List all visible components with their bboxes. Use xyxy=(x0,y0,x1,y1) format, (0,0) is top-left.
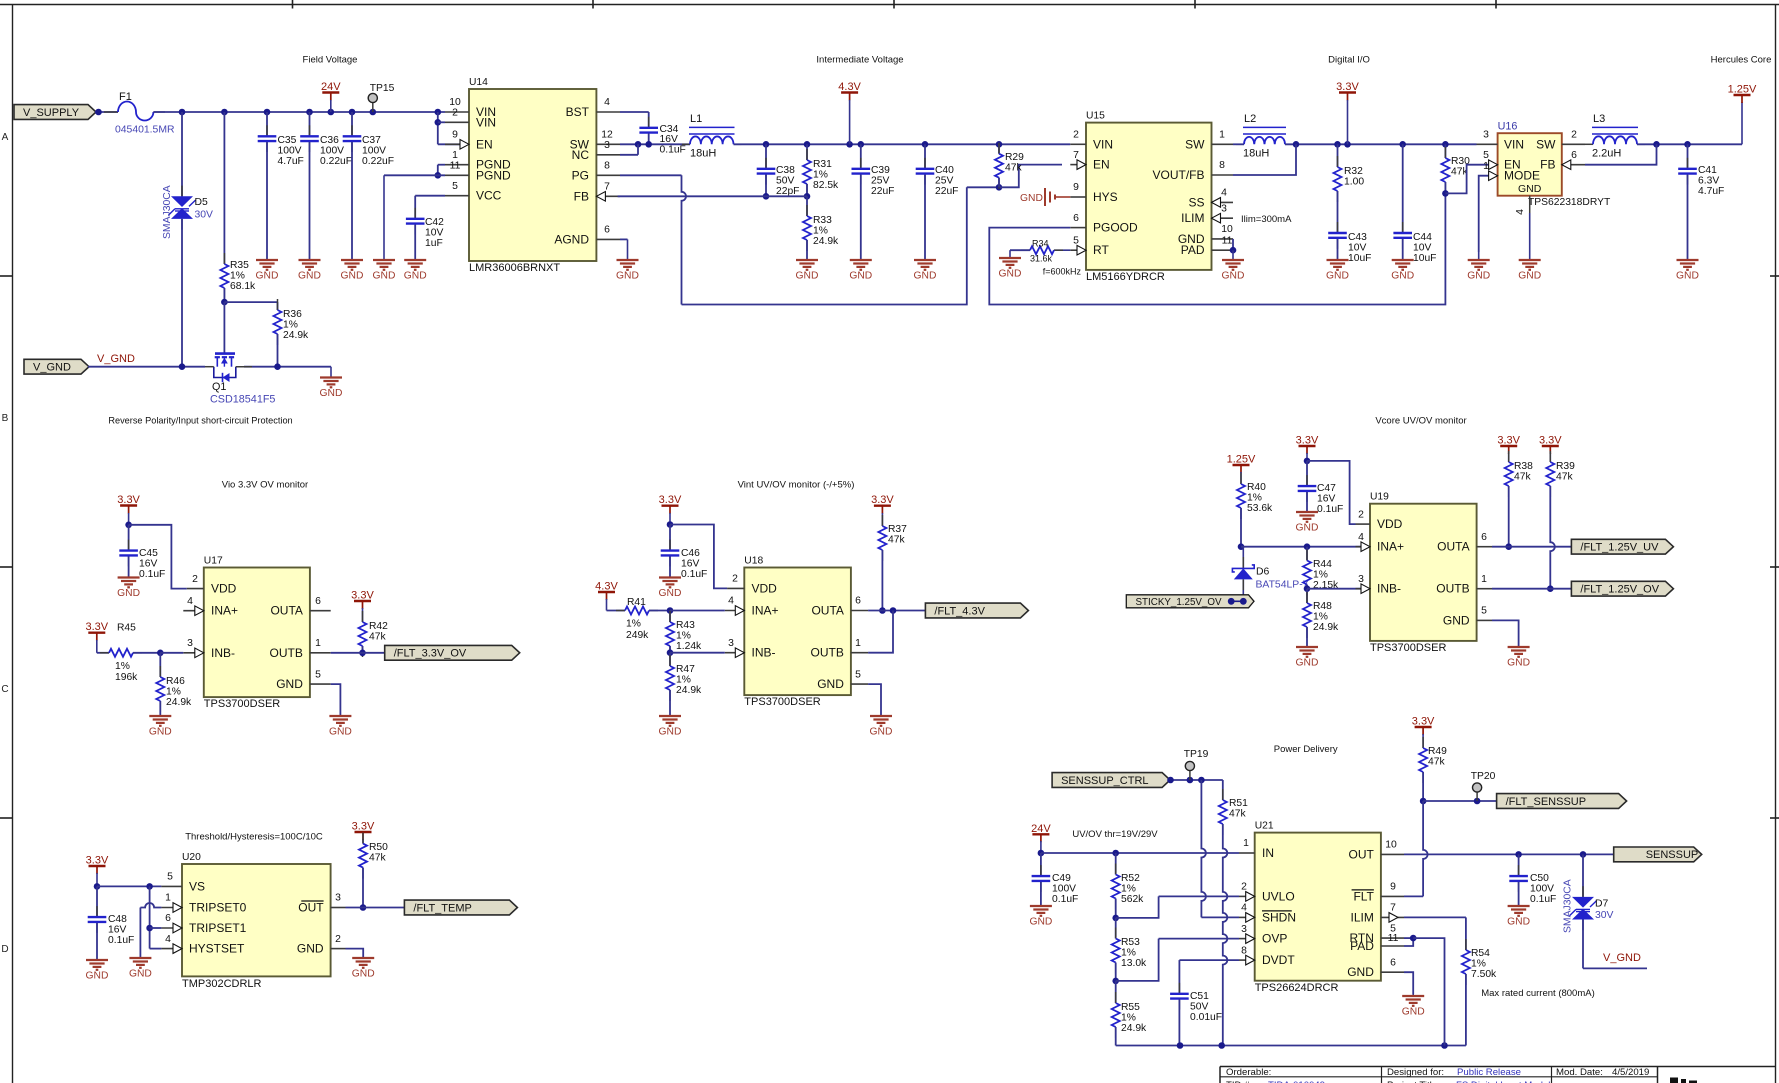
svg-text:SENSSUP_CTRL: SENSSUP_CTRL xyxy=(1061,775,1148,787)
ground under C35 xyxy=(256,259,278,261)
svg-text:3: 3 xyxy=(187,638,193,649)
svg-text:5: 5 xyxy=(167,872,173,883)
svg-text:CSD18541F5: CSD18541F5 xyxy=(210,394,275,406)
ground under C44 xyxy=(1392,259,1414,261)
resistor R35 xyxy=(223,112,225,264)
svg-text:3: 3 xyxy=(1241,924,1247,935)
svg-text:INB-: INB- xyxy=(1377,582,1401,596)
svg-text:C36: C36 xyxy=(320,135,339,146)
wire 3.3V to U18 VDD xyxy=(670,525,727,589)
U14 pin 11 PGND xyxy=(445,174,469,176)
svg-text:1.25V: 1.25V xyxy=(1227,454,1256,466)
U19 pin 3 INB- xyxy=(1356,588,1371,590)
svg-text:3: 3 xyxy=(1483,130,1489,141)
svg-text:GND: GND xyxy=(320,388,343,399)
svg-text:1: 1 xyxy=(855,638,861,649)
resistor R50 xyxy=(362,833,364,844)
svg-text:MODE: MODE xyxy=(1504,169,1540,183)
svg-text:R47: R47 xyxy=(676,664,695,675)
U16 pin 3 VIN xyxy=(1477,143,1498,145)
svg-text:C51: C51 xyxy=(1190,991,1209,1002)
U16 pin 6 FB xyxy=(1562,164,1585,166)
svg-text:1: 1 xyxy=(452,150,458,161)
svg-text:6: 6 xyxy=(1481,532,1487,543)
svg-text:0.1uF: 0.1uF xyxy=(660,145,686,156)
svg-text:VDD: VDD xyxy=(211,582,237,596)
svg-text:TP19: TP19 xyxy=(1184,749,1209,760)
U21 pin 10 OUT xyxy=(1381,853,1404,855)
resistor R55 xyxy=(1115,981,1117,1003)
svg-text:AGND: AGND xyxy=(554,232,589,246)
svg-text:3: 3 xyxy=(335,893,341,904)
svg-text:C42: C42 xyxy=(425,217,444,228)
U15 pin 3 ILIM xyxy=(1212,217,1234,219)
svg-text:1%: 1% xyxy=(813,169,828,180)
svg-text:47k: 47k xyxy=(369,631,386,642)
resistor R40 xyxy=(1240,473,1242,484)
U17 pin 1 OUTB xyxy=(310,652,331,654)
svg-text:R43: R43 xyxy=(676,620,695,631)
svg-text:GND: GND xyxy=(117,588,140,599)
ground under C37 xyxy=(341,259,363,261)
svg-text:R52: R52 xyxy=(1121,873,1140,884)
svg-text:12: 12 xyxy=(601,130,613,141)
svg-text:TRIPSET0: TRIPSET0 xyxy=(189,901,247,915)
ground under C50 xyxy=(1508,905,1530,907)
svg-text:GND: GND xyxy=(341,271,364,282)
svg-text:4: 4 xyxy=(1514,209,1526,215)
U18 pin 3 INB- xyxy=(725,652,745,654)
svg-text:C40: C40 xyxy=(935,165,954,176)
ground under C49 xyxy=(1030,905,1052,907)
transistor Q1 CSD18541F5 xyxy=(223,302,225,353)
svg-text:045401.5MR: 045401.5MR xyxy=(115,125,175,136)
svg-text:/FLT_TEMP: /FLT_TEMP xyxy=(413,902,471,914)
svg-text:GND: GND xyxy=(298,271,321,282)
wire Q1 source to ground xyxy=(244,366,331,368)
wire SENSSUP_CTRL to R51 xyxy=(1169,779,1223,781)
svg-text:100V: 100V xyxy=(1530,883,1554,894)
svg-text:R40: R40 xyxy=(1247,482,1266,493)
U15 pin 5 RT xyxy=(1070,249,1086,251)
svg-text:3.3V: 3.3V xyxy=(352,821,375,833)
wire OUT to flag xyxy=(346,907,405,909)
svg-text:1%: 1% xyxy=(1121,947,1136,958)
svg-text:1%: 1% xyxy=(1313,611,1328,622)
test point TP19 xyxy=(1189,766,1191,780)
svg-text:1: 1 xyxy=(315,638,321,649)
wire PGOOD down xyxy=(989,193,1445,304)
svg-text:L3: L3 xyxy=(1593,113,1605,125)
svg-text:GND: GND xyxy=(1020,193,1043,204)
svg-text:VOUT/FB: VOUT/FB xyxy=(1152,168,1204,182)
svg-text:BAT54LP-7: BAT54LP-7 xyxy=(1256,580,1309,591)
svg-text:/FLT_SENSSUP: /FLT_SENSSUP xyxy=(1506,796,1587,808)
svg-text:C48: C48 xyxy=(108,914,127,925)
svg-text:INA+: INA+ xyxy=(211,604,238,618)
svg-text:Vcore UV/OV monitor: Vcore UV/OV monitor xyxy=(1375,416,1466,427)
svg-text:GND: GND xyxy=(276,677,303,691)
svg-text:Reverse Polarity/Input short-c: Reverse Polarity/Input short-circuit Pro… xyxy=(108,416,292,426)
svg-text:22uF: 22uF xyxy=(871,186,894,197)
svg-text:Hercules Core: Hercules Core xyxy=(1711,55,1772,66)
svg-text:100V: 100V xyxy=(1052,883,1076,894)
svg-text:47k: 47k xyxy=(1556,471,1573,482)
svg-text:5: 5 xyxy=(1073,235,1079,246)
svg-text:4: 4 xyxy=(165,934,171,945)
svg-text:1%: 1% xyxy=(166,686,181,697)
wire BST to C34 xyxy=(620,111,649,113)
svg-text:24V: 24V xyxy=(1031,823,1051,835)
svg-text:25V: 25V xyxy=(935,175,953,186)
wire SW node xyxy=(620,143,690,145)
svg-text:3.3V: 3.3V xyxy=(351,590,374,602)
wire RTN PAD join xyxy=(1404,937,1413,939)
svg-text:INA+: INA+ xyxy=(1377,540,1404,554)
resistor R37 xyxy=(881,515,883,526)
U18 pin 2 VDD xyxy=(727,587,744,589)
svg-text:FB: FB xyxy=(574,189,589,203)
svg-text:Field Voltage: Field Voltage xyxy=(303,55,358,66)
svg-text:2: 2 xyxy=(452,108,458,119)
svg-text:0.1uF: 0.1uF xyxy=(139,569,165,580)
svg-text:SS: SS xyxy=(1188,195,1204,209)
U15 pin 6 PGOOD xyxy=(1070,227,1086,229)
wire FB tap U16 xyxy=(1585,144,1657,164)
U20 pin 6 TRIPSET1 xyxy=(161,927,182,929)
ground under R48 xyxy=(1296,646,1318,648)
svg-text:C: C xyxy=(1,684,8,695)
svg-text:GND: GND xyxy=(999,269,1022,280)
TI logo fragment xyxy=(1670,1078,1678,1083)
capacitor C37 xyxy=(351,112,353,135)
svg-text:R48: R48 xyxy=(1313,601,1332,612)
svg-text:GND: GND xyxy=(1518,183,1542,195)
ground under R46 xyxy=(149,715,171,717)
svg-text:1%: 1% xyxy=(1471,958,1486,969)
svg-text:2: 2 xyxy=(335,934,341,945)
wire VIN pin2 branch xyxy=(437,112,439,144)
svg-text:196k: 196k xyxy=(115,672,138,683)
svg-text:4: 4 xyxy=(1221,188,1227,199)
svg-text:VIN: VIN xyxy=(1504,137,1524,151)
svg-text:GND: GND xyxy=(1443,613,1470,627)
resistor R34 at RT xyxy=(1054,249,1070,251)
resistor R36 xyxy=(224,301,277,303)
wire to INA+ xyxy=(670,610,725,612)
net flag /FLT_1.25V_UV xyxy=(1571,539,1673,554)
U16 pin 2 SW xyxy=(1562,143,1585,145)
wire VS row xyxy=(97,885,161,887)
wire 4.3V intermediate bus xyxy=(734,143,1071,145)
wire PGND pins to ground xyxy=(438,164,445,166)
svg-text:U19: U19 xyxy=(1370,492,1389,503)
svg-text:GND: GND xyxy=(329,727,352,738)
svg-text:U17: U17 xyxy=(204,556,223,567)
svg-text:GND: GND xyxy=(849,271,872,282)
svg-text:Q1: Q1 xyxy=(212,381,226,393)
svg-text:50V: 50V xyxy=(776,175,794,186)
svg-text:47k: 47k xyxy=(888,534,905,545)
svg-text:R46: R46 xyxy=(166,676,185,687)
svg-text:C49: C49 xyxy=(1052,873,1071,884)
capacitor C48 xyxy=(96,886,98,916)
ground for U17 GND pin xyxy=(331,684,341,716)
ground under R47 xyxy=(659,715,681,717)
ground under C42 xyxy=(404,259,426,261)
svg-text:GND: GND xyxy=(129,969,152,980)
svg-text:4: 4 xyxy=(1241,903,1247,914)
svg-text:100V: 100V xyxy=(278,145,302,156)
capacitor C47 xyxy=(1306,461,1308,485)
svg-text:HYSTSET: HYSTSET xyxy=(189,942,245,956)
svg-text:24V: 24V xyxy=(321,81,341,93)
svg-text:R41: R41 xyxy=(627,597,646,608)
U18 pin 1 OUTB xyxy=(851,652,868,654)
wire to INB- xyxy=(670,652,725,654)
svg-text:1%: 1% xyxy=(1121,1012,1136,1023)
wire SHDN row xyxy=(1201,916,1239,918)
svg-text:47k: 47k xyxy=(369,852,386,863)
U14 pin 1 PGND xyxy=(445,164,469,166)
svg-text:7: 7 xyxy=(1073,150,1079,161)
wire 3.3V to U19 VDD xyxy=(1307,461,1356,524)
svg-text:TP20: TP20 xyxy=(1471,771,1496,782)
capacitor C46 xyxy=(669,525,671,550)
ground for PGND xyxy=(383,175,385,260)
svg-text:GND: GND xyxy=(914,271,937,282)
svg-text:GND: GND xyxy=(86,971,109,982)
svg-text:Vio 3.3V OV monitor: Vio 3.3V OV monitor xyxy=(222,480,308,491)
svg-text:C44: C44 xyxy=(1413,232,1432,243)
svg-text:10V: 10V xyxy=(1413,242,1431,253)
op-amp U20 TMP302CDRLR temperature switch xyxy=(182,864,331,976)
svg-text:GND: GND xyxy=(1676,271,1699,282)
U18 pin 5 GND xyxy=(851,683,868,685)
inductor L3 2.2uH xyxy=(1585,143,1593,145)
svg-text:PGND: PGND xyxy=(476,168,511,182)
svg-text:C35: C35 xyxy=(278,135,297,146)
svg-text:OVP: OVP xyxy=(1262,932,1287,946)
svg-text:R50: R50 xyxy=(369,842,388,853)
svg-text:6: 6 xyxy=(315,596,321,607)
svg-text:OUTB: OUTB xyxy=(811,646,844,660)
svg-text:10: 10 xyxy=(1385,840,1397,851)
wire main 24V input bus xyxy=(153,111,445,113)
U17 pin 4 INA+ xyxy=(183,610,204,612)
U21 pin 1 IN xyxy=(1239,852,1255,854)
TVS diode D7 SMAJ30CA xyxy=(1582,854,1584,897)
svg-text:GND: GND xyxy=(256,271,279,282)
wire AGND to ground xyxy=(620,238,628,240)
svg-text:2: 2 xyxy=(1358,509,1364,520)
op-amp U21 TPS26624DRCR eFuse xyxy=(1255,833,1381,981)
svg-text:4: 4 xyxy=(1358,532,1364,543)
test point TP15 xyxy=(372,98,374,112)
net flag /FLT_1.25V_OV xyxy=(1571,581,1673,596)
U14 pin 3 NC xyxy=(596,154,620,156)
wire INA+ row xyxy=(1241,546,1363,548)
svg-text:Threshold/Hysteresis=100C/10C: Threshold/Hysteresis=100C/10C xyxy=(185,832,323,843)
svg-text:C46: C46 xyxy=(681,548,700,559)
svg-text:1%: 1% xyxy=(1247,492,1262,503)
resistor R53 xyxy=(1115,918,1117,939)
svg-text:B: B xyxy=(2,413,9,424)
svg-text:7.50k: 7.50k xyxy=(1471,969,1497,980)
svg-text:5: 5 xyxy=(452,181,458,192)
svg-text:0.1uF: 0.1uF xyxy=(1317,504,1343,515)
svg-text:R54: R54 xyxy=(1471,948,1490,959)
svg-text:10uF: 10uF xyxy=(1348,253,1371,264)
svg-text:Power Delivery: Power Delivery xyxy=(1274,744,1338,755)
net flag V_SUPPLY xyxy=(14,105,96,120)
svg-text:V_GND: V_GND xyxy=(97,353,135,365)
svg-text:3: 3 xyxy=(728,638,734,649)
svg-text:GND: GND xyxy=(817,677,844,691)
svg-text:D: D xyxy=(1,944,8,955)
resistor R38 xyxy=(1508,451,1510,462)
svg-text:3: 3 xyxy=(1358,574,1364,585)
svg-text:8: 8 xyxy=(1241,945,1247,956)
svg-text:SHDN: SHDN xyxy=(1262,910,1296,924)
svg-text:50V: 50V xyxy=(1190,1001,1208,1012)
svg-text:10V: 10V xyxy=(425,227,443,238)
svg-text:GND: GND xyxy=(796,271,819,282)
U14 pin 10 VIN xyxy=(445,111,469,113)
svg-text:NC: NC xyxy=(572,148,590,162)
svg-text:562k: 562k xyxy=(1121,894,1144,905)
svg-text:53.6k: 53.6k xyxy=(1247,503,1273,514)
svg-text:25V: 25V xyxy=(871,175,889,186)
svg-text:24.9k: 24.9k xyxy=(1313,622,1339,633)
svg-text:18uH: 18uH xyxy=(1243,148,1269,160)
svg-text:100V: 100V xyxy=(362,145,386,156)
net flag V_GND xyxy=(24,359,89,374)
svg-text:SW: SW xyxy=(1185,137,1205,151)
svg-text:TPS3700DSER: TPS3700DSER xyxy=(1370,642,1446,654)
op-amp U19 TPS3700DSER xyxy=(1370,504,1477,641)
svg-text:6: 6 xyxy=(1571,150,1577,161)
svg-text:Digital I/O: Digital I/O xyxy=(1328,55,1370,66)
svg-text:10: 10 xyxy=(449,97,461,108)
svg-text:1uF: 1uF xyxy=(425,238,443,249)
U20 pin 1 TRIPSET0 xyxy=(161,907,182,909)
svg-text:3.3V: 3.3V xyxy=(85,621,108,633)
svg-text:U16: U16 xyxy=(1498,121,1518,133)
svg-text:SMAJ30CA: SMAJ30CA xyxy=(162,185,173,239)
title block table xyxy=(1220,1066,1776,1068)
U18 pin 6 OUTA xyxy=(851,610,868,612)
ground under C40 xyxy=(914,259,936,261)
svg-text:HYS: HYS xyxy=(1093,190,1118,204)
svg-text:1: 1 xyxy=(165,893,171,904)
svg-text:R53: R53 xyxy=(1121,937,1140,948)
svg-text:0.22uF: 0.22uF xyxy=(362,156,394,167)
svg-text:24.9k: 24.9k xyxy=(166,697,192,708)
svg-text:LM5166YDRCR: LM5166YDRCR xyxy=(1086,271,1165,283)
op-amp U15 LM5166YDRCR buck converter xyxy=(1086,123,1212,270)
svg-text:V_SUPPLY: V_SUPPLY xyxy=(23,107,80,119)
svg-text:3.3V: 3.3V xyxy=(1539,435,1562,447)
svg-text:8: 8 xyxy=(1219,160,1225,171)
svg-text:3.3V: 3.3V xyxy=(1497,435,1520,447)
svg-text:16V: 16V xyxy=(108,924,126,935)
svg-text:/FLT_1.25V_OV: /FLT_1.25V_OV xyxy=(1580,584,1659,596)
svg-text:U18: U18 xyxy=(744,556,763,567)
ground under C48 xyxy=(86,959,108,961)
svg-text:TPS3700DSER: TPS3700DSER xyxy=(204,698,280,710)
svg-text:100V: 100V xyxy=(320,145,344,156)
svg-text:INB-: INB- xyxy=(211,646,235,660)
svg-text:4.3V: 4.3V xyxy=(838,81,861,93)
svg-text:GND: GND xyxy=(1391,271,1414,282)
svg-text:BST: BST xyxy=(566,105,590,119)
svg-text:6: 6 xyxy=(1390,957,1396,968)
ground under U16 GND xyxy=(1529,252,1531,260)
ground for AGND xyxy=(627,239,629,260)
resistor R43 xyxy=(669,611,671,623)
svg-text:5: 5 xyxy=(1481,606,1487,617)
wire HYSTSET xyxy=(150,948,162,950)
svg-text:UV/OV thr=19V/29V: UV/OV thr=19V/29V xyxy=(1072,829,1158,840)
svg-text:3.3V: 3.3V xyxy=(117,494,140,506)
inductor L1 18uH xyxy=(682,143,690,145)
svg-text:OUT: OUT xyxy=(1349,847,1375,861)
svg-text:10uF: 10uF xyxy=(1413,253,1436,264)
svg-text:249k: 249k xyxy=(626,630,649,641)
svg-text:Orderable:: Orderable: xyxy=(1226,1067,1271,1078)
svg-text:1%: 1% xyxy=(115,661,130,672)
svg-text:C41: C41 xyxy=(1698,165,1717,176)
svg-text:R44: R44 xyxy=(1313,559,1332,570)
svg-text:0.01uF: 0.01uF xyxy=(1190,1012,1222,1023)
U15 pin 10 GND xyxy=(1212,238,1234,240)
wire VCC to C42 xyxy=(415,195,445,197)
svg-text:10V: 10V xyxy=(1348,242,1366,253)
svg-text:0.1uF: 0.1uF xyxy=(1530,894,1556,905)
svg-text:GND: GND xyxy=(1467,271,1490,282)
svg-text:R42: R42 xyxy=(369,621,388,632)
svg-text:GND: GND xyxy=(659,588,682,599)
svg-text:TPS3700DSER: TPS3700DSER xyxy=(744,696,820,708)
svg-text:22uF: 22uF xyxy=(935,186,958,197)
svg-text:GND: GND xyxy=(352,969,375,980)
svg-text:24.9k: 24.9k xyxy=(813,236,839,247)
svg-text:FB: FB xyxy=(1540,158,1555,172)
svg-text:GND: GND xyxy=(870,727,893,738)
wire OUT SENSSUP row xyxy=(1404,853,1614,855)
svg-text:Mod. Date:: Mod. Date: xyxy=(1556,1067,1603,1078)
svg-text:C43: C43 xyxy=(1348,232,1367,243)
svg-text:2.2uH: 2.2uH xyxy=(1592,148,1621,160)
U15 pin 4 SS xyxy=(1212,201,1234,203)
svg-text:30V: 30V xyxy=(195,210,214,221)
U19 pin 4 INA+ xyxy=(1356,546,1371,548)
svg-text:47k: 47k xyxy=(1229,808,1246,819)
capacitor C38 xyxy=(765,144,767,168)
svg-text:1: 1 xyxy=(1219,130,1225,141)
wire UVLO row xyxy=(1116,896,1159,918)
svg-text:C45: C45 xyxy=(139,548,158,559)
svg-text:SMAJ30CA: SMAJ30CA xyxy=(1563,879,1574,933)
svg-text:/FLT_4.3V: /FLT_4.3V xyxy=(934,605,985,617)
svg-text:4: 4 xyxy=(728,596,734,607)
svg-text:6: 6 xyxy=(855,596,861,607)
svg-text:47k: 47k xyxy=(1514,471,1531,482)
svg-text:1: 1 xyxy=(1243,838,1249,849)
U20 pin 2 GND xyxy=(331,948,346,950)
svg-text:VS: VS xyxy=(189,879,205,893)
